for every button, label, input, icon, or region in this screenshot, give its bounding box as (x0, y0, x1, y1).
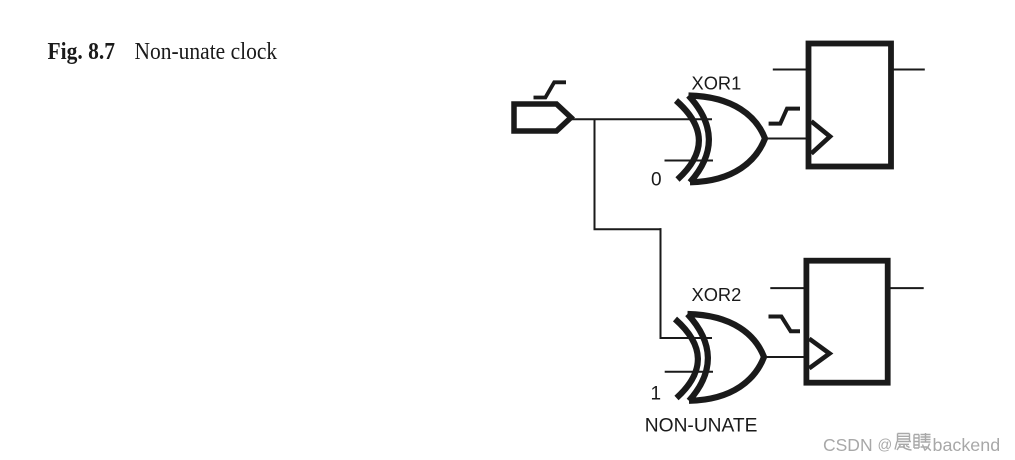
svg-text:XOR2: XOR2 (692, 284, 742, 305)
wire junction vertical drop (594, 119, 596, 229)
svg-text:Non-unate clock: Non-unate clock (135, 38, 278, 66)
rising-edge mark at FF1 clock (769, 109, 800, 124)
svg-text:@: @ (878, 438, 893, 454)
wire XOR1 constant-0 input stub (665, 160, 714, 162)
wire horizontal segment to XOR2 branch (594, 228, 662, 230)
XOR gate XOR2 (675, 314, 764, 401)
svg-text:1: 1 (651, 384, 662, 405)
wire FF2 output (888, 287, 924, 289)
wire XOR2 top input (660, 337, 713, 339)
svg-text:0: 0 (651, 169, 662, 190)
flip-flop FF2 body (806, 261, 887, 383)
wire vertical drop to XOR2 (660, 228, 662, 338)
wire FF2 data input (770, 287, 806, 289)
wire FF1 output (891, 69, 925, 71)
watermark glyph xi (914, 433, 931, 451)
falling-edge mark at FF2 clock (769, 317, 801, 332)
XOR gate XOR1 (676, 96, 765, 183)
clock source symbol (514, 104, 571, 131)
wire XOR2 constant-1 input stub (665, 371, 713, 373)
rising-edge mark at clock source (534, 82, 567, 97)
wire XOR1 output to FF1 clock (763, 138, 807, 140)
svg-text:backend: backend (933, 435, 1001, 455)
flip-flop FF1 body (809, 44, 892, 167)
svg-text:NON-UNATE: NON-UNATE (645, 416, 758, 437)
svg-text:Fig. 8.7: Fig. 8.7 (48, 38, 116, 66)
flip-flop FF2 clock triangle (809, 339, 829, 369)
flip-flop FF1 clock triangle (811, 121, 830, 153)
wire XOR2 output to FF2 clock (762, 356, 805, 358)
watermark glyph chen (895, 434, 912, 451)
svg-text:CSDN: CSDN (823, 435, 873, 455)
wire clock output to XOR1 top input (569, 118, 712, 120)
svg-text:XOR1: XOR1 (692, 73, 742, 94)
wire FF1 data input (773, 69, 808, 71)
